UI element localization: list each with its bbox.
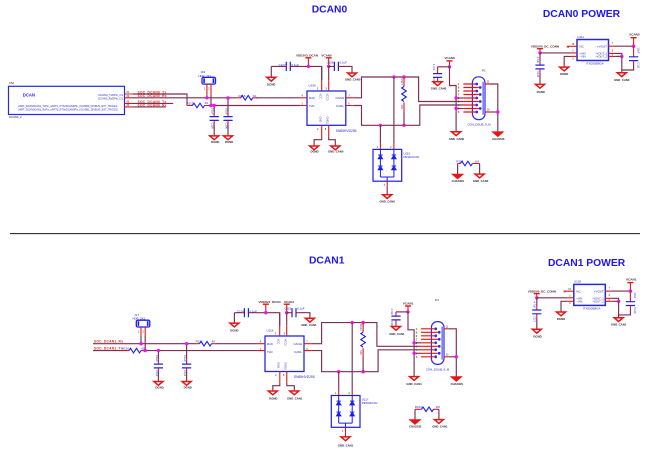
svg-text:VCAN0: VCAN0 xyxy=(444,56,455,60)
svg-text:C105: C105 xyxy=(211,123,215,130)
wire J17 pin1 xyxy=(140,335,142,343)
svg-text:ITX0505BGA: ITX0505BGA xyxy=(583,306,601,310)
TVS U117 PESD2CAN xyxy=(331,390,377,437)
transceiver U109 SN65HVD255 xyxy=(307,83,357,133)
svg-text:C115: C115 xyxy=(284,307,291,311)
wire -VOUT gnd DCAN1 xyxy=(618,301,620,317)
wire VCAN1 pin9 xyxy=(414,352,421,354)
ground DGND C106 xyxy=(224,136,234,144)
resistor R123 xyxy=(415,405,440,412)
svg-text:0.1uF: 0.1uF xyxy=(250,309,258,313)
svg-text:10uF: 10uF xyxy=(633,292,637,298)
ground GND_CAN0 DB9 xyxy=(449,132,465,141)
TVS U110 PESD2CAN xyxy=(373,144,419,195)
svg-text:3: 3 xyxy=(384,184,386,187)
svg-text:40: 40 xyxy=(253,94,257,98)
wire U109 pin3 supply xyxy=(321,66,323,80)
capacitor C116 xyxy=(390,308,400,327)
svg-text:GND_CAN0: GND_CAN0 xyxy=(473,179,489,183)
power flag VCAN0 DB9 xyxy=(444,56,455,67)
wire -VOUT_1 DCAN1 xyxy=(605,294,618,301)
svg-text:40: 40 xyxy=(205,101,209,105)
junction CANL1 R122 xyxy=(361,370,364,373)
ground GND_CAN1 U116 xyxy=(287,391,303,400)
svg-text:10: 10 xyxy=(487,109,490,112)
svg-text:VDD3V3_DCAN: VDD3V3_DCAN xyxy=(296,54,318,58)
svg-text:U118: U118 xyxy=(574,280,581,284)
svg-text:R117: R117 xyxy=(400,79,404,86)
svg-text:2: 2 xyxy=(390,146,392,149)
junction C106 xyxy=(226,96,229,99)
wire U116 pin3 supply xyxy=(279,313,281,326)
junction DB9 pin3 DCAN1 xyxy=(412,341,415,344)
wire +VIN xyxy=(540,50,577,53)
svg-text:C114: C114 xyxy=(237,309,244,313)
wire VCAN1 to cap xyxy=(396,311,408,313)
capacitor C118 xyxy=(619,291,638,315)
svg-text:DGND: DGND xyxy=(269,396,277,400)
wire rail VDD3V3 DCAN1 xyxy=(234,313,279,327)
svg-text:1M: 1M xyxy=(475,159,480,163)
ground DGND C112 xyxy=(154,382,164,390)
svg-text:VDD3V3_DCAN: VDD3V3_DCAN xyxy=(258,300,280,304)
DC-DC U111 power module xyxy=(577,35,609,66)
resistor R122 termination xyxy=(359,323,365,372)
resistor R118 xyxy=(456,159,479,166)
svg-text:CHASSIS: CHASSIS xyxy=(451,382,464,386)
svg-text:GND_CAN1: GND_CAN1 xyxy=(301,323,317,327)
power flag VCAN1 rail xyxy=(284,300,295,313)
svg-text:C107: C107 xyxy=(279,63,286,67)
U116 pin numbers xyxy=(260,332,309,378)
svg-text:CON_DSUB_9_M: CON_DSUB_9_M xyxy=(467,122,491,126)
ground GND_CAN1 out xyxy=(611,318,627,327)
junction J16 pin2 xyxy=(209,104,212,107)
svg-text:GND_CAN0: GND_CAN0 xyxy=(431,87,447,91)
svg-text:DCAN: DCAN xyxy=(23,93,35,98)
svg-text:0.1uF: 0.1uF xyxy=(291,63,299,67)
capacitor C114 xyxy=(237,308,257,317)
wire -VIN DCAN1 xyxy=(561,301,574,312)
wire J16 pin2 xyxy=(210,94,212,105)
svg-text:RxD: RxD xyxy=(309,96,316,100)
capacitor C109 xyxy=(432,64,442,85)
svg-text:0.1uF: 0.1uF xyxy=(183,355,187,362)
junction VDD3V3 DCAN1 xyxy=(264,311,267,314)
svg-text:R116: R116 xyxy=(239,94,246,98)
wire CANH xyxy=(354,77,464,102)
junction DB9 pin3 xyxy=(454,96,457,99)
svg-text:1: 1 xyxy=(138,330,140,334)
wire rail VCAN0 xyxy=(329,66,352,72)
ground CHASSIS R118 xyxy=(452,174,465,183)
svg-text:DGND: DGND xyxy=(560,72,568,76)
junction VDD3V3 flag xyxy=(307,65,310,68)
svg-text:1: 1 xyxy=(335,392,337,395)
capacitor C110 xyxy=(535,53,544,84)
ground GND_CAN1 TVS xyxy=(338,437,354,448)
svg-text:4.7nF: 4.7nF xyxy=(390,308,394,315)
svg-text:5: 5 xyxy=(458,110,460,114)
junction CANL1 TVS xyxy=(337,370,340,373)
svg-text:VCAN0: VCAN0 xyxy=(321,54,332,58)
junction VDD5V0 xyxy=(538,51,541,54)
svg-text:GND_CAN0: GND_CAN0 xyxy=(345,77,361,81)
svg-text:0.1uF: 0.1uF xyxy=(224,108,228,115)
ground GND_CAN0 C109 xyxy=(431,82,447,91)
svg-text:GND_CAN0: GND_CAN0 xyxy=(380,200,396,204)
svg-text:2: 2 xyxy=(142,330,144,334)
wire VCAN0 to cap xyxy=(438,66,450,68)
svg-text:0.1uF: 0.1uF xyxy=(340,60,348,64)
ground GND_CAN1 rail xyxy=(301,318,317,327)
capacitor C107 xyxy=(279,62,299,71)
svg-text:VCAN0: VCAN0 xyxy=(629,33,640,37)
ground DGND U116 xyxy=(268,391,277,400)
svg-text:U116: U116 xyxy=(267,328,274,332)
svg-text:VCAN1: VCAN1 xyxy=(403,302,414,306)
svg-text:P4: P4 xyxy=(435,298,439,302)
junction DB9 pin9 xyxy=(454,107,457,110)
svg-text:VDD5V0_DC_CONN: VDD5V0_DC_CONN xyxy=(528,289,556,293)
power flag VCAN0 out xyxy=(629,33,640,47)
svg-text:120: 120 xyxy=(400,105,404,110)
junction J16 pin1 xyxy=(205,96,208,99)
junction C105 xyxy=(213,104,216,107)
junction shield DCAN1 xyxy=(455,355,458,358)
svg-text:CHASSIS: CHASSIS xyxy=(492,137,505,141)
wire TVS1 right pin xyxy=(351,323,353,390)
junction J17 pin1 xyxy=(139,342,142,345)
svg-text:DGND: DGND xyxy=(230,328,238,332)
svg-text:C117: C117 xyxy=(533,316,537,323)
svg-text:2: 2 xyxy=(572,50,574,53)
wire TVS left pin xyxy=(379,125,381,143)
svg-text:10uF: 10uF xyxy=(636,48,640,54)
junction CANL R117 xyxy=(402,124,405,127)
svg-text:PESD2CAN: PESD2CAN xyxy=(404,155,420,159)
resistor R121 xyxy=(196,339,216,346)
svg-text:C106: C106 xyxy=(224,123,228,130)
svg-text:ITX0505BGA: ITX0505BGA xyxy=(586,61,604,65)
U116 pin stubs xyxy=(258,325,312,383)
svg-text:6: 6 xyxy=(609,294,611,297)
resistor R117 termination xyxy=(400,77,406,125)
wire VCAN1 to DB9 xyxy=(408,312,414,377)
junction VCAN0 out xyxy=(632,45,635,48)
svg-text:UART_DCAN0CAN1_RxPin_uART0_RTS: UART_DCAN0CAN1_RxPin_uART0_RTSnDCAN0Pin_… xyxy=(18,108,118,111)
capacitor C115 xyxy=(284,307,304,318)
wire VCAN0 to DB9 xyxy=(450,67,457,132)
ground DGND C105 xyxy=(210,136,220,144)
svg-text:CON_DSUB_9_M: CON_DSUB_9_M xyxy=(426,367,450,371)
svg-text:5: 5 xyxy=(416,355,418,359)
svg-text:C110: C110 xyxy=(536,71,540,78)
svg-text:P1: P1 xyxy=(482,69,486,73)
wire U109 pin5 supply xyxy=(328,66,330,80)
svg-text:GND_CAN1: GND_CAN1 xyxy=(287,396,303,400)
svg-text:−VOUT_2: −VOUT_2 xyxy=(592,300,605,304)
wire DB9 shield xyxy=(490,84,498,132)
svg-text:DGND: DGND xyxy=(225,140,233,144)
wire J17 pin2 xyxy=(144,335,146,350)
svg-text:3: 3 xyxy=(342,430,344,433)
svg-text:2: 2 xyxy=(317,127,319,131)
svg-text:DCAN0_TxDPin_O1: DCAN0_TxDPin_O1 xyxy=(99,93,124,97)
wire DB9 shield DCAN1 xyxy=(449,329,457,377)
svg-text:VCC2: VCC2 xyxy=(325,94,329,101)
svg-text:8: 8 xyxy=(283,373,285,377)
wire stub row4 xyxy=(133,106,166,108)
svg-text:GND_CAN0: GND_CAN0 xyxy=(449,137,465,141)
svg-text:GND2: GND2 xyxy=(325,117,329,125)
svg-text:0.1uF: 0.1uF xyxy=(155,355,159,362)
svg-text:2: 2 xyxy=(208,87,210,91)
svg-text:U5A: U5A xyxy=(9,81,15,85)
svg-text:RxD: RxD xyxy=(267,342,274,346)
svg-text:CANL: CANL xyxy=(336,104,344,108)
wire R123 right xyxy=(438,409,440,419)
divider line xyxy=(10,233,640,235)
svg-text:+VOUT: +VOUT xyxy=(597,45,607,49)
wire DB9 pin10 DCAN1 xyxy=(449,356,457,358)
connector P4 CON_DSUB_9_M xyxy=(416,298,450,372)
wire VCAN0 pin9 xyxy=(456,108,463,110)
ground GND_CAN1 C116 xyxy=(389,327,405,336)
svg-text:DGND: DGND xyxy=(533,335,541,339)
svg-text:0.1uF: 0.1uF xyxy=(297,307,305,311)
wire U116 gnd left xyxy=(273,383,280,391)
svg-text:11: 11 xyxy=(487,81,490,84)
resistor R120 xyxy=(122,346,145,353)
svg-text:7: 7 xyxy=(609,287,611,290)
wire TVS right pin xyxy=(393,77,395,144)
svg-text:GND_CAN0: GND_CAN0 xyxy=(614,78,630,82)
svg-text:1: 1 xyxy=(377,146,379,149)
svg-text:VDD5V0_DC_CONN: VDD5V0_DC_CONN xyxy=(531,45,559,49)
svg-text:16: 16 xyxy=(568,288,571,291)
ground CHASSIS R123 xyxy=(409,420,422,429)
wire +VOUT xyxy=(609,42,634,46)
junction CANH R117 xyxy=(402,75,405,78)
capacitor C106 xyxy=(223,98,232,136)
svg-text:R115: R115 xyxy=(187,101,194,105)
svg-text:SOC_DCAN1_Tx: SOC_DCAN1_Tx xyxy=(94,346,123,350)
capacitor C108 xyxy=(327,60,347,71)
svg-text:DCAN0_RxDPin_O1: DCAN0_RxDPin_O1 xyxy=(98,96,123,100)
U109 pin stubs xyxy=(300,80,354,136)
svg-text:GND_CAN1: GND_CAN1 xyxy=(432,425,448,429)
svg-text:2: 2 xyxy=(348,392,350,395)
svg-text:TxD: TxD xyxy=(267,350,273,354)
junction -VOUT DCAN1 xyxy=(617,300,620,303)
svg-text:4: 4 xyxy=(260,340,262,344)
svg-text:NC: NC xyxy=(576,289,581,293)
svg-text:GND_CAN0: GND_CAN0 xyxy=(328,150,344,154)
DC-DC U118 power module xyxy=(574,280,606,311)
wire -VOUT_2 DCAN1 xyxy=(605,298,618,301)
junction VDD5V0 DCAN1 xyxy=(535,296,538,299)
wire -VIN xyxy=(564,56,577,67)
ground GND_CAN1 DB9 xyxy=(406,377,422,386)
svg-text:R122: R122 xyxy=(359,324,363,331)
svg-text:DGND: DGND xyxy=(155,386,163,390)
svg-text:U109: U109 xyxy=(309,83,317,87)
wire -VOUT_1 xyxy=(609,49,622,56)
power flag VDD5V0_DC_CONN1 xyxy=(528,289,556,297)
svg-text:GND_CAN1: GND_CAN1 xyxy=(406,382,422,386)
ground DGND rail xyxy=(267,66,276,86)
power flag VDD3V3_DCAN1 xyxy=(258,300,280,313)
capacitor C112 xyxy=(154,351,163,382)
wire TVS1 left pin xyxy=(338,372,340,390)
ground CHASSIS DB9 DCAN1 xyxy=(451,377,464,386)
svg-text:GND2: GND2 xyxy=(283,362,287,370)
svg-text:GND_CAN1: GND_CAN1 xyxy=(338,444,354,448)
ground CHASSIS DB9 xyxy=(492,132,505,141)
wire U116 pin5 supply xyxy=(286,313,288,326)
hierarchical block U5 DCAN xyxy=(9,81,125,119)
svg-text:CHASSIS: CHASSIS xyxy=(409,425,422,429)
junction CANH1 TVS xyxy=(351,321,354,324)
svg-text:4.7nF: 4.7nF xyxy=(432,64,436,71)
junction VCAN0 DB9 xyxy=(448,65,451,68)
wire R118 right xyxy=(479,164,481,174)
svg-text:+VOUT: +VOUT xyxy=(594,289,604,293)
svg-text:VCC: VCC xyxy=(318,94,322,100)
connector J17 HDR_2X1 xyxy=(133,313,150,336)
wire TxD1 net xyxy=(93,350,258,352)
svg-text:R121: R121 xyxy=(196,339,204,343)
ground DGND U109 xyxy=(310,146,319,154)
wire J16 pin1 xyxy=(206,94,208,98)
svg-text:−VIN: −VIN xyxy=(576,300,582,304)
capacitor C113 xyxy=(182,344,191,382)
svg-text:DGND: DGND xyxy=(267,83,275,87)
wire rail VCAN1 xyxy=(287,313,310,318)
U111 NC pin xyxy=(567,43,577,49)
resistor R115 xyxy=(187,101,211,108)
power flag VCAN1 out xyxy=(626,278,637,292)
svg-text:DCAN1: DCAN1 xyxy=(309,256,345,267)
connector P1 CON_DSUB_9_M xyxy=(458,69,492,127)
svg-text:−VIN: −VIN xyxy=(580,55,586,59)
wire R123 left xyxy=(414,409,416,419)
svg-text:NC: NC xyxy=(580,45,585,49)
svg-text:DCAN0_2: DCAN0_2 xyxy=(9,115,22,119)
svg-text:4: 4 xyxy=(302,94,304,98)
svg-text:40: 40 xyxy=(212,339,216,343)
wire CANH1 xyxy=(312,323,421,347)
svg-text:CANH: CANH xyxy=(335,96,344,100)
wire TxD net xyxy=(210,105,300,107)
ground DGND rail DCAN1 xyxy=(230,313,239,333)
svg-text:4.7uF: 4.7uF xyxy=(536,57,540,64)
junction VCAN1 DB9 xyxy=(406,310,409,313)
transceiver U116 SN65HVD255 xyxy=(265,328,315,379)
wire RxD net xyxy=(133,97,300,99)
wire VCAN1 pin3 xyxy=(414,342,421,344)
U118 NC pin xyxy=(563,288,573,294)
capacitor C117 xyxy=(532,298,541,329)
svg-text:4.7uF: 4.7uF xyxy=(533,301,537,308)
junction CANH1 R122 xyxy=(361,321,364,324)
capacitor C105 xyxy=(210,106,219,136)
svg-text:CANL: CANL xyxy=(294,350,302,354)
svg-text:3: 3 xyxy=(317,87,319,91)
junction C112 xyxy=(157,349,160,352)
svg-text:7: 7 xyxy=(612,42,614,45)
svg-text:SN65HVD255: SN65HVD255 xyxy=(336,129,357,133)
svg-text:5: 5 xyxy=(284,332,286,336)
U109 pin numbers xyxy=(302,87,351,131)
ground DGND C117 xyxy=(532,329,541,338)
ground DGND C110 xyxy=(536,84,545,93)
svg-text:3: 3 xyxy=(572,57,574,60)
svg-text:7: 7 xyxy=(348,94,350,98)
wire CANL xyxy=(354,105,464,125)
svg-text:SOC_DCAN1_Rx: SOC_DCAN1_Rx xyxy=(94,340,123,344)
svg-text:VCC: VCC xyxy=(276,339,280,345)
svg-text:6: 6 xyxy=(612,49,614,52)
wire R118 left xyxy=(457,164,459,174)
wire SOC_DCAN0_Tx xyxy=(133,94,187,106)
ground DGND -VIN xyxy=(560,67,569,76)
wire RxD1 net xyxy=(93,343,258,345)
junction J17 pin2 xyxy=(144,349,147,352)
ground GND_CAN0 TVS xyxy=(380,195,396,204)
svg-text:GND_CAN1: GND_CAN1 xyxy=(611,323,627,327)
wire DB9 pin10 xyxy=(490,111,498,113)
wire +VIN DCAN1 xyxy=(537,295,574,298)
ground GND_CAN0 U109 xyxy=(328,146,344,154)
svg-text:DGND: DGND xyxy=(557,317,565,321)
svg-text:R120: R120 xyxy=(122,346,130,350)
svg-text:DCAN1 POWER: DCAN1 POWER xyxy=(548,258,626,269)
svg-text:3: 3 xyxy=(275,332,277,336)
wire CANL1 xyxy=(312,350,421,372)
wire U116 gnd right xyxy=(287,383,295,391)
svg-text:R123: R123 xyxy=(415,405,422,409)
power flag VDD5V0_DC_CONN xyxy=(531,45,559,53)
svg-text:VCC2: VCC2 xyxy=(283,339,287,346)
svg-text:7: 7 xyxy=(306,340,308,344)
svg-text:16: 16 xyxy=(572,43,575,46)
svg-text:8: 8 xyxy=(325,127,327,131)
svg-text:DGND: DGND xyxy=(537,90,545,94)
svg-text:GND: GND xyxy=(318,117,322,123)
resistor R116 xyxy=(236,94,258,100)
svg-text:CANH: CANH xyxy=(293,342,302,346)
ground GND_CAN0 rail xyxy=(345,73,361,81)
svg-text:R118: R118 xyxy=(456,159,463,163)
svg-text:DGND: DGND xyxy=(184,386,192,390)
junction VCAN0 flag xyxy=(327,65,330,68)
svg-text:SN65HVD255: SN65HVD255 xyxy=(294,375,315,379)
svg-text:PESD2CAN: PESD2CAN xyxy=(362,401,378,405)
svg-text:C108: C108 xyxy=(327,60,334,64)
junction VCAN1 out xyxy=(629,289,632,292)
block U5 pin numbers xyxy=(127,91,130,107)
wire stub row3 xyxy=(133,102,173,104)
block U5 pin stubs xyxy=(125,94,134,107)
svg-text:VCAN1: VCAN1 xyxy=(284,300,295,304)
junction shield xyxy=(496,110,499,113)
junction C113 xyxy=(185,342,188,345)
svg-text:DGND: DGND xyxy=(310,150,318,154)
svg-text:CHASSIS: CHASSIS xyxy=(452,179,465,183)
capacitor C111 xyxy=(622,46,641,70)
